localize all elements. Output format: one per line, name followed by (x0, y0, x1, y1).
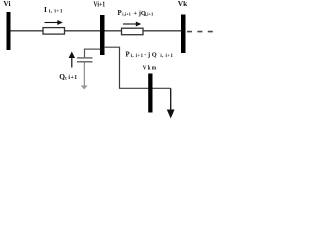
svg-text:V k m: V k m (143, 64, 157, 71)
svg-text:i, i+1: i, i+1 (49, 8, 63, 14)
arrow I i,i+1 (45, 20, 63, 25)
arrow P i,i+1 (123, 22, 141, 27)
wire load branch: bus Vi+1 right, down, to bus Vkm (104, 47, 171, 88)
arrow Qc (up) (69, 52, 75, 68)
svg-text:i,i+1: i,i+1 (122, 12, 131, 17)
wire main line: bus Vi+1 to box2 (102, 30, 122, 32)
capacitor C plates (77, 57, 93, 59)
wire main line: box1 to bus Vi+1 (65, 30, 103, 32)
svg-text:i, i+1: i, i+1 (131, 54, 144, 59)
svg-text:i,i+1: i,i+1 (145, 12, 154, 17)
wire shunt branch: bus Vi+1 to capacitor corner (85, 49, 101, 57)
svg-text:i+1: i+1 (68, 75, 77, 81)
svg-text:Vi: Vi (3, 0, 10, 8)
wire dashed continuation right of bus Vk (187, 31, 213, 33)
ground arrowhead (gray) (81, 86, 88, 90)
svg-text:P: P (126, 52, 130, 59)
svg-text:I: I (44, 5, 47, 14)
impedance box 2 (122, 28, 144, 35)
bus Vk (181, 15, 186, 54)
svg-text:i, i+1: i, i+1 (160, 54, 173, 59)
bus Vi+1 (100, 15, 105, 55)
wire main line: box2 to bus Vk (143, 30, 184, 32)
bus Vkm (148, 74, 152, 113)
bus Vi (7, 12, 11, 50)
impedance box 1 (43, 28, 65, 34)
svg-text:Vi+1: Vi+1 (93, 1, 105, 9)
load arrow down (167, 88, 175, 118)
svg-text:- j Q: - j Q (144, 52, 156, 59)
svg-text:P: P (118, 10, 122, 17)
svg-text:Vk: Vk (178, 0, 188, 8)
label P i,i+1 - j Q i,i+1 (126, 52, 174, 59)
wire main line left: bus Vi to box1 (8, 30, 43, 32)
wire below capacitor (83, 62, 85, 85)
